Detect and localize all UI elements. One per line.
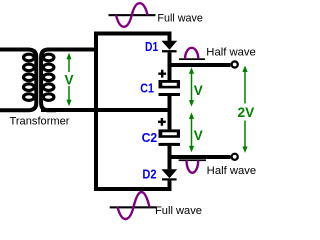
svg-text:Half wave: Half wave: [207, 165, 257, 177]
svg-text:Full wave: Full wave: [155, 205, 202, 217]
svg-text:2V: 2V: [238, 105, 255, 120]
svg-text:Transformer: Transformer: [10, 116, 70, 128]
svg-text:C1: C1: [140, 81, 154, 96]
svg-text:V: V: [194, 128, 203, 143]
svg-text:Full wave: Full wave: [157, 13, 203, 25]
svg-text:C2: C2: [142, 130, 158, 145]
svg-text:D2: D2: [142, 166, 156, 181]
svg-text:V: V: [65, 73, 74, 88]
svg-text:Half wave: Half wave: [206, 46, 256, 58]
svg-text:V: V: [194, 83, 203, 98]
svg-text:D1: D1: [145, 39, 158, 54]
